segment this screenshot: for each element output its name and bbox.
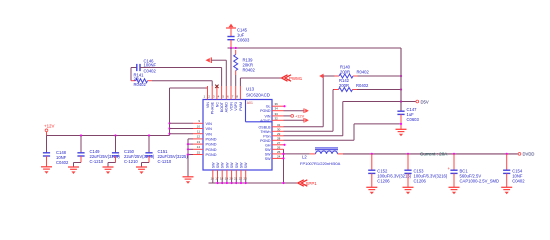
svg-text:32: 32 [275,116,279,120]
svg-text:14: 14 [197,145,201,149]
svg-text:2R: 2R [134,76,139,81]
capacitor C153 [404,153,447,188]
wire: BOOT drop to pin 4 [221,68,223,87]
power net D5V (right) [416,99,429,104]
pin labels inner box [260,105,271,123]
svg-text:A01: A01 [247,101,253,105]
power net +12V (left) [44,123,54,135]
capacitor C148 [43,136,69,167]
svg-text:9: 9 [198,119,200,123]
wire: PGND pins to ground [188,139,193,177]
junction SW pin 24 [282,157,284,159]
junction at R139/rail [235,47,237,49]
power symbol D5V arrow (left) [206,57,212,63]
junction D5V column [400,100,402,102]
svg-text:C0402: C0402 [56,160,69,165]
wire: +12V rail [47,135,170,137]
svg-text:SW: SW [265,157,271,161]
svg-text:34: 34 [275,107,279,111]
junction PGND pin14 [187,148,189,150]
junction SW wire [282,153,284,155]
junction C149 [80,134,82,136]
svg-text:PGND: PGND [206,138,217,142]
junction: GL pin stub end [283,105,285,107]
svg-text:7: 7 [232,95,234,99]
svg-text:Current : 20A: Current : 20A [420,151,448,156]
svg-text:+12V: +12V [44,123,54,128]
svg-text:L2: L2 [302,155,307,160]
junction VIN pin9 [168,122,170,124]
svg-text:VIN: VIN [206,132,213,136]
svg-text:26: 26 [277,145,281,149]
svg-text:PHASE: PHASE [211,101,215,114]
junction C147 bottom [400,123,402,125]
wire: pin 28 to C147 ground [284,124,402,140]
svg-text:PWM: PWM [239,102,243,111]
svg-text:PGND: PGND [206,148,217,152]
op-amp U13 SIC620ACD body [203,100,272,171]
inductor L2 [300,148,343,166]
capacitor C147 [397,107,419,129]
wire: D5V vertical [400,48,402,111]
svg-text:SW: SW [244,162,248,168]
wire: pin 30 to R142 [284,90,334,132]
svg-text:PGND: PGND [206,153,217,157]
svg-text:36: 36 [275,102,279,106]
svg-text:C-1210: C-1210 [90,159,104,164]
wire: arrow to pin 5 [211,60,226,86]
svg-text:R0402: R0402 [356,83,369,88]
wire: PGND pin 34 to arrow [284,110,304,112]
svg-text:DVDD: DVDD [523,152,535,157]
capacitor C150 [108,136,155,168]
junction: GH pin stub end [283,144,285,146]
svg-text:VIN: VIN [265,114,271,118]
capacitor C149 [74,136,121,168]
svg-text:29: 29 [277,132,281,136]
svg-text:33: 33 [275,112,279,116]
wire: output rail DVDD [343,153,518,155]
junction C150 [114,134,116,136]
wire: rail to pin 6 (VCIN) [230,48,232,86]
capacitor C146 [131,58,222,73]
wire: VIN pin 10 [170,128,194,130]
svg-text:FP1007R1/220nH/50A: FP1007R1/220nH/50A [300,161,341,166]
note: Current 20A [420,151,448,156]
svg-text:AGND: AGND [225,102,229,113]
resistor R139 [234,50,256,75]
wire: pin 29 to D5V node [284,102,343,136]
svg-text:NC: NC [215,102,219,108]
pins 16-23 (bottom) with numbers [211,170,248,181]
svg-text:VIN: VIN [206,122,213,126]
svg-text:200R: 200R [340,69,350,74]
svg-text:28: 28 [277,136,281,140]
svg-text:SIC620ACD: SIC620ACD [246,93,270,98]
junction R140/D5V [400,75,402,77]
capacitor C152 [368,153,411,188]
svg-text:2: 2 [208,95,210,99]
pins 36/34/33/32 (inner box right) with numbers [272,102,284,120]
power arrow right (pin 34) [304,108,309,113]
power net DVDD [518,152,534,157]
wire: SW to inductor [284,153,310,155]
svg-text:V3P3: V3P3 [234,102,238,111]
svg-text:10: 10 [197,124,201,128]
node marker at R140 corner [319,74,323,79]
capacitor C151 [142,136,189,168]
svg-text:C0603: C0603 [237,38,250,43]
svg-text:100NF: 100NF [144,63,157,68]
svg-text:SW: SW [225,162,229,168]
junction VIN pin11 [168,133,170,135]
svg-text:12: 12 [197,135,201,139]
svg-text:200R: 200R [339,83,349,88]
junction PGND pin15 [187,153,189,155]
svg-text:OSBLB: OSBLB [259,125,272,129]
svg-text:D5V: D5V [421,99,429,104]
wire: SW right pins vertical [283,149,285,183]
svg-text:VIN: VIN [206,102,210,108]
capacitor BC1 [448,153,500,188]
ground (under C153) [403,187,414,194]
svg-text:BOOT: BOOT [220,101,224,112]
net label PWM1 [282,75,303,81]
svg-text:SW: SW [211,162,215,168]
svg-text:C0402: C0402 [512,178,525,183]
svg-text:1: 1 [204,95,206,99]
ground (under BC1) [449,187,460,194]
svg-text:CAP1000-2.5V_SMD: CAP1000-2.5V_SMD [460,178,500,183]
no-connect X on pin 3 [215,85,218,88]
svg-text:SW: SW [240,162,244,168]
svg-text:GL: GL [266,105,271,109]
junction at C145/rail [230,47,232,49]
wire: VIN pin 9 [170,122,194,124]
svg-text:SW: SW [235,162,239,168]
svg-text:+12V: +12V [295,114,305,119]
junction VIN pin10 [168,127,170,129]
resistor R142 [333,78,401,92]
wire: PWM1 net [240,78,281,86]
pin labels SW right [265,148,271,161]
svg-text:C0402: C0402 [144,68,157,73]
svg-text:6: 6 [227,95,229,99]
ground (under PGND pins) [183,177,194,184]
svg-text:C1206: C1206 [377,178,390,183]
svg-text:4: 4 [218,95,220,99]
svg-text:SW: SW [216,162,220,168]
svg-text:U13: U13 [246,87,255,92]
svg-text:R0402: R0402 [243,68,256,73]
svg-text:R0402: R0402 [357,69,370,74]
wire: +12V to VIN pins [170,86,208,136]
ground (under C148) [41,167,52,174]
svg-text:11: 11 [197,130,200,134]
wire: SW bottom rail [209,182,298,184]
pins 31-27 (right) with numbers [272,123,284,145]
ground (under C150) [103,167,114,174]
svg-text:C-1210: C-1210 [124,159,138,164]
svg-text:PGND: PGND [206,143,217,147]
svg-text:31: 31 [277,123,281,127]
svg-text:8: 8 [236,95,238,99]
pins 26/25/24 SW (right) with numbers [272,145,284,158]
svg-text:PGn: PGn [263,134,270,138]
power symbol D5V (top) [226,24,236,37]
ground (under C147) [396,129,407,136]
svg-text:AGND: AGND [260,119,271,123]
wire: pin 31 to R140 [284,76,324,127]
wire: R139 to pin 7 [235,75,237,86]
wire: D5V row [343,101,416,103]
svg-text:24: 24 [277,154,281,158]
junction PGND pin13 [187,143,189,145]
power net +12V (pin 33) [284,114,305,119]
svg-text:PWM1: PWM1 [289,76,303,81]
svg-text:SW: SW [221,162,225,168]
wire: D5V rail [228,47,402,49]
svg-text:25: 25 [277,150,281,154]
svg-text:SW: SW [265,152,271,156]
value SIC620ACD [246,93,270,98]
net label SPP1 [298,180,317,186]
svg-text:C0603: C0603 [407,117,420,122]
capacitor C145 [227,28,250,49]
ground (under C151) [136,167,147,174]
svg-text:SPP1: SPP1 [306,181,318,186]
svg-text:VCIN: VCIN [229,102,233,111]
svg-text:SW: SW [230,162,234,168]
wire: VIN pin 11 [170,133,194,135]
svg-text:15: 15 [197,150,201,154]
svg-text:PGND: PGND [260,109,271,113]
svg-text:27: 27 [277,141,281,145]
svg-text:C1206: C1206 [414,178,427,183]
svg-text:R0402: R0402 [134,82,147,87]
resistor R141 [131,68,212,87]
svg-text:C-1210: C-1210 [158,159,172,164]
svg-text:3: 3 [213,95,215,99]
pins 9-15 (left) with numbers [193,119,203,154]
pins 1-8 (top) with numbers [204,86,241,100]
wires: bottom pins to SW rail [213,179,246,183]
junction SW pin 25 [282,153,284,155]
svg-text:13: 13 [197,140,201,144]
capacitor C154 [503,153,525,188]
ground (under C152) [366,187,377,194]
junctions on SW rail [216,182,284,184]
wire: AGND pin 32 to arrow [284,119,304,121]
ground (under C149) [68,167,79,174]
wire: PHASE drop to pin 2 [211,81,213,86]
svg-text:+: + [448,166,451,171]
svg-text:VIN: VIN [206,127,213,131]
svg-text:SW: SW [265,148,271,152]
junction R142/D5V [400,88,402,90]
power arrow right (pin 32) [304,118,309,123]
svg-text:5: 5 [222,95,224,99]
refdes U13 [246,87,255,92]
pin labels bottom row SW [211,162,248,168]
ground (under C154) [501,187,512,194]
pin labels top row [206,101,243,114]
svg-text:30: 30 [277,127,281,131]
junction C151 [148,134,150,136]
pin labels right column [259,125,272,147]
svg-text:PGND: PGND [260,139,271,143]
svg-text:THWn: THWn [260,130,270,134]
pin labels left column [206,122,217,157]
svg-text:GH: GH [265,143,271,147]
resistor R140 [323,64,401,78]
